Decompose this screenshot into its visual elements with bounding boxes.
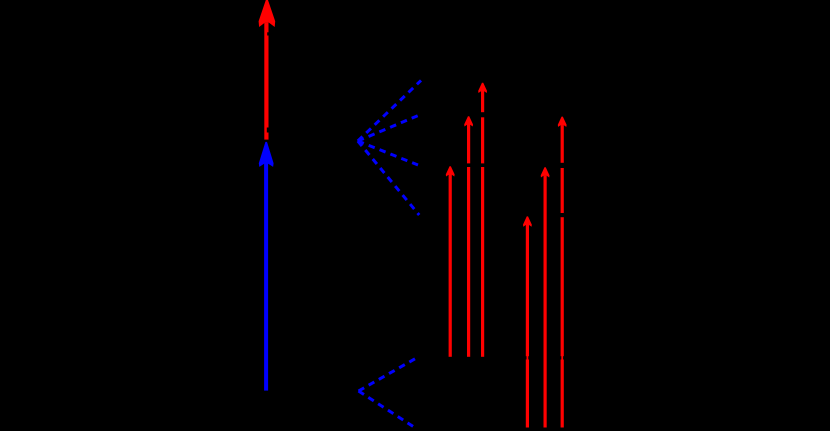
sublevel 2 line crossing arrow A3 bbox=[481, 112, 485, 117]
red emission arrow (intermediate level to top level) bbox=[259, 0, 276, 140]
intermediate level line crossing left red arrow bbox=[267, 128, 270, 133]
top fan: dashed splitting lines from intermediate level to 4 sublevels bbox=[358, 80, 421, 215]
six red transition arrows bbox=[446, 83, 567, 428]
transition arrow A1 bbox=[449, 174, 452, 357]
dashed line to sublevel 3 bbox=[358, 141, 418, 165]
transition arrow A3 bbox=[481, 91, 484, 357]
top level line crossing left red arrow bbox=[267, 32, 269, 35]
upper ground sublevel line pinching arrow A4 bbox=[525, 356, 526, 359]
black level-line crossings (notches over the arrows) bbox=[267, 32, 564, 359]
transition arrow A4 bbox=[526, 224, 529, 427]
blue excitation arrow (ground level to intermediate level) bbox=[259, 142, 274, 391]
sublevel 3 line crossing arrow A2 bbox=[467, 163, 471, 167]
transition arrow A2 bbox=[467, 124, 470, 357]
upper ground sublevel line pinching arrow A6 bbox=[560, 356, 561, 359]
sublevel 3 line crossing arrow A6 bbox=[560, 163, 564, 168]
sublevel 4 line crossing arrow A6 bbox=[560, 213, 564, 217]
dashed line to sublevel 2 bbox=[358, 115, 421, 141]
transition arrow A6 bbox=[561, 125, 564, 427]
sublevel 3 line crossing arrow A3 bbox=[481, 163, 485, 167]
bottom fan: dashed splitting lines from ground level to 2 sublevels bbox=[359, 357, 420, 430]
dashed line to sublevel 4 bbox=[358, 141, 419, 215]
dashed line to lower ground sublevel bbox=[359, 391, 418, 429]
dashed line to upper ground sublevel bbox=[359, 357, 420, 392]
transition arrow A5 bbox=[544, 176, 547, 428]
dashed line to sublevel 1 bbox=[358, 80, 421, 141]
